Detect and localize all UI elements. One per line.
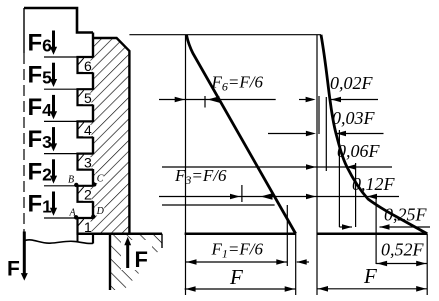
thread number 1 leader <box>78 219 84 226</box>
curve tick d <box>355 163 357 227</box>
curve tick c <box>338 130 340 227</box>
nut tooth in groove 3 <box>85 155 93 169</box>
node B dot <box>74 183 78 187</box>
bolt groove wall extension below nut <box>77 234 79 242</box>
F6 dim arrow right <box>208 96 220 102</box>
force line of thread 6 <box>44 56 77 58</box>
thread number 6 halo <box>83 61 91 73</box>
svg-text:0,52F: 0,52F <box>381 240 425 260</box>
middle diagram axis <box>185 35 187 295</box>
bolt thread groove 1 outline <box>78 218 94 234</box>
force line of thread 5 <box>44 88 77 90</box>
svg-text:B: B <box>68 175 74 186</box>
force line of thread 3 <box>44 153 77 155</box>
nut tooth in groove 1 <box>85 219 93 233</box>
svg-text:F1=F/6: F1=F/6 <box>211 240 264 261</box>
svg-text:1: 1 <box>84 219 92 235</box>
node D dot <box>91 214 95 218</box>
nut outline <box>93 38 129 234</box>
right diagram axis <box>316 35 318 295</box>
thread number 3 halo <box>83 157 91 169</box>
row4 arrows <box>306 164 316 170</box>
support hatched body <box>110 234 162 290</box>
svg-text:F: F <box>7 258 20 281</box>
curve tick e <box>375 196 377 264</box>
svg-text:C: C <box>97 174 104 185</box>
svg-text:0,25F: 0,25F <box>384 205 428 225</box>
row5 right dim line <box>336 133 384 135</box>
svg-text:6: 6 <box>84 58 92 74</box>
force line of thread 1 <box>44 217 77 219</box>
nut tooth in groove 6 <box>85 58 93 72</box>
thread number 2 leader <box>78 187 84 194</box>
row3 arrows <box>306 194 316 200</box>
support right break tick <box>161 234 163 248</box>
middle diagram baseline <box>185 232 296 235</box>
bolt thread groove 6 outline <box>78 57 94 73</box>
middle diagram slanted envelope <box>187 35 296 234</box>
support hole edge <box>109 234 111 290</box>
bolt lower shank right edge below nut <box>92 234 94 244</box>
force F6 arrow <box>52 31 55 49</box>
bolt thread groove 3 outline <box>78 154 94 170</box>
nut bore line segments at tooth faces <box>92 33 94 58</box>
thread number 1 halo <box>83 222 91 234</box>
node C dot <box>92 182 96 186</box>
svg-text:0,02F: 0,02F <box>330 73 374 93</box>
svg-text:0,12F: 0,12F <box>352 174 396 194</box>
right diagram baseline <box>317 232 428 235</box>
row6 right dim line <box>331 99 378 101</box>
svg-text:0,03F: 0,03F <box>332 108 376 128</box>
node C halo <box>95 174 104 184</box>
nut cross-section hatched body <box>93 38 129 234</box>
svg-text:F: F <box>229 265 243 289</box>
level row aux line <box>162 204 275 206</box>
force F5 arrow <box>52 63 55 80</box>
svg-text:F: F <box>363 264 377 288</box>
F3 dim arrow right <box>261 193 273 199</box>
svg-text:2: 2 <box>84 187 92 203</box>
thread number 5 leader <box>78 90 84 97</box>
svg-text:D: D <box>96 206 105 217</box>
svg-text:F6=F/6: F6=F/6 <box>211 73 264 94</box>
thread number 4 leader <box>78 122 84 128</box>
reaction F arrow (up) <box>126 244 129 268</box>
svg-text:0,06F: 0,06F <box>337 141 381 161</box>
thread number 5 halo <box>83 93 91 105</box>
svg-text:3: 3 <box>84 154 92 170</box>
F3 dim tick <box>241 185 243 202</box>
force F2 arrow <box>52 159 55 177</box>
bolt left edge dashed axis <box>23 53 25 240</box>
thread number 2 halo <box>83 189 91 201</box>
bolt head outline <box>24 8 93 33</box>
corner outside arrow <box>297 261 309 263</box>
nut tooth in groove 5 <box>85 90 93 104</box>
bolt thread groove 2 outline <box>78 186 94 202</box>
reaction F halo <box>121 240 152 270</box>
bolt break squiggle line <box>24 240 93 244</box>
right F dimension line <box>317 288 427 290</box>
F6 dim tick <box>204 96 206 108</box>
thread number 4 halo <box>83 125 91 136</box>
node A dot <box>74 215 78 219</box>
level row 6 line <box>159 99 276 101</box>
right diagram load curve <box>321 35 427 234</box>
force line of thread 2 <box>44 185 77 187</box>
F1 dimension line <box>186 261 288 263</box>
row5 line left <box>268 133 306 135</box>
svg-text:A: A <box>69 208 77 219</box>
force F4 arrow <box>52 95 55 113</box>
svg-text:5: 5 <box>84 90 92 106</box>
bolt thread groove 5 outline <box>78 89 94 105</box>
F6 dim arrow left <box>175 97 185 103</box>
level row 3 line <box>159 196 368 198</box>
row6 right approach arrow <box>299 99 306 101</box>
force F3 arrow <box>52 127 55 145</box>
bolt left edge solid part <box>23 8 25 53</box>
bolt thread groove 4 outline <box>78 121 94 137</box>
curve tick b <box>325 97 327 171</box>
right corner extension <box>426 234 428 295</box>
level row 4 line <box>162 166 392 168</box>
middle F dimension line <box>185 288 296 290</box>
force line of thread 4 <box>44 120 77 122</box>
top reference line <box>129 34 321 36</box>
middle corner extension line <box>286 205 288 266</box>
thread number 6 leader <box>78 58 84 65</box>
svg-text:4: 4 <box>84 122 92 138</box>
curve tick a <box>318 96 320 134</box>
svg-text:F: F <box>135 247 148 272</box>
row1 dim line <box>376 263 427 265</box>
nut tooth in groove 2 <box>85 187 93 201</box>
row2 dim line <box>339 226 352 228</box>
middle right corner extension <box>295 234 297 295</box>
node D halo <box>95 206 104 216</box>
support and nut bottom face line <box>77 232 162 235</box>
svg-text:F3=F/6: F3=F/6 <box>174 166 227 187</box>
nut tooth in groove 4 <box>85 122 93 136</box>
F3 dim arrow left <box>230 194 240 200</box>
force F1 arrow <box>52 192 55 210</box>
total force F arrow (down) <box>23 232 26 275</box>
thread number 3 leader <box>78 155 84 162</box>
